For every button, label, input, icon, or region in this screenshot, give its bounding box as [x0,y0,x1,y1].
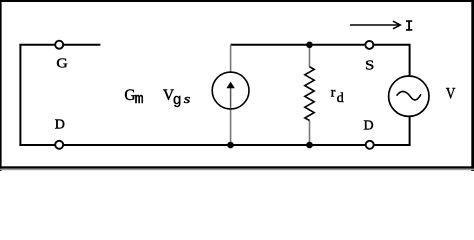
terminal G [55,41,63,49]
svg-text:S: S [365,58,374,73]
wire current source bottom lead [230,110,232,146]
node junction dot resistor bottom [306,142,313,149]
current source Gm*Vgs [212,72,249,109]
svg-text:D: D [364,119,374,134]
terminal D left [55,141,63,149]
svg-text:D: D [55,118,65,133]
svg-text:r: r [331,85,336,100]
svg-text:g: g [173,92,182,109]
node junction dot current source bottom [227,142,234,149]
terminal S [365,41,373,49]
svg-text:s: s [184,93,191,107]
svg-text:m: m [135,91,144,108]
wire left vertical (G to D short) [19,45,21,145]
node junction dot resistor top [306,42,313,49]
wire top-left horizontal through G terminal [19,44,100,46]
resistor rd [305,67,314,121]
wire top-right rail [231,44,410,46]
wire resistor bottom lead [309,120,311,145]
svg-text:I: I [405,19,414,35]
svg-text:G: G [56,56,68,71]
wire resistor top lead [309,45,311,67]
wire right vertical upper (to voltage source top) [409,44,411,76]
voltage source V [389,76,429,116]
svg-text:V: V [446,85,456,102]
wire bottom rail [19,144,410,146]
terminal D right [366,141,374,149]
current direction arrow I [350,21,400,29]
wire current source top lead [230,45,232,72]
wire right vertical lower (voltage source bottom to rail) [409,117,411,147]
svg-text:d: d [337,91,344,106]
